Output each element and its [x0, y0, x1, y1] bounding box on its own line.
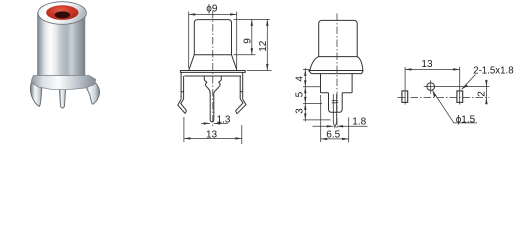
dim 9 extension lines: [234, 19, 270, 54]
dim phi9 line: [189, 13, 237, 15]
photo center hole: [55, 11, 70, 18]
svg-text:12: 12: [258, 40, 269, 52]
front right wall: [240, 72, 243, 99]
side left dim extension lines: [303, 69, 331, 120]
dim 13 extension lines: [184, 117, 242, 144]
dim 9 line: [251, 19, 253, 54]
photo left leg claw: [30, 79, 42, 107]
photo right leg claw: [83, 78, 99, 105]
centerline front view: [212, 11, 214, 126]
side pin: [333, 94, 336, 127]
dim 6.5 line: [321, 138, 349, 140]
svg-text:ϕ9: ϕ9: [206, 4, 218, 15]
svg-text:1.8: 1.8: [352, 117, 366, 128]
front left claw: [178, 99, 187, 114]
dim 6.5 extension lines: [321, 95, 349, 143]
side barrel: [319, 20, 358, 56]
front right claw: [236, 99, 246, 114]
leader 2-1.5x1.8: [462, 75, 476, 90]
svg-text:4: 4: [295, 76, 306, 82]
footprint hole circle: [427, 83, 435, 91]
front bracket top flange: [180, 71, 245, 73]
svg-text:13: 13: [421, 59, 433, 70]
photo base collar: [31, 76, 96, 90]
photo base underside shadow: [42, 87, 83, 90]
svg-text:6.5: 6.5: [326, 129, 340, 140]
svg-text:ϕ1.5: ϕ1.5: [456, 114, 476, 125]
footprint hole crosshair horizontal: [424, 86, 490, 88]
front left wall joint tick: [181, 91, 184, 93]
dim 12 extension line: [247, 70, 272, 72]
photo barrel top rim: [38, 2, 86, 25]
front bracket inner line: [184, 75, 241, 77]
side pin break ticks: [332, 101, 339, 103]
dim 12 line: [266, 19, 268, 70]
front center pin cup and pin: [204, 76, 221, 122]
svg-text:9: 9: [242, 38, 253, 44]
svg-text:13: 13: [206, 130, 218, 141]
side bell flare: [310, 57, 363, 71]
dim 1.3 arrows: [201, 122, 228, 124]
photo red insulator ring: [46, 5, 78, 20]
footprint dim 13 extension lines: [405, 67, 460, 105]
front right wall joint tick: [240, 91, 243, 93]
dim phi9 extension lines: [189, 12, 237, 69]
photo center pin: [59, 78, 66, 108]
dim 13 line: [184, 137, 242, 139]
front left wall: [181, 72, 184, 99]
footprint centerline through pads: [398, 97, 490, 99]
footprint dim 2 line: [485, 80, 487, 105]
side flange: [309, 71, 364, 74]
side left dim line 4-5-3: [304, 68, 306, 122]
svg-text:5: 5: [295, 91, 306, 97]
footprint dim 13 line: [405, 68, 460, 70]
front flare trapezoid: [189, 55, 237, 70]
svg-text:1.3: 1.3: [217, 114, 231, 125]
footprint hole crosshair vertical: [430, 80, 432, 93]
side centerline: [336, 14, 338, 129]
dim 1.8 arrows/leaders: [313, 125, 368, 127]
side block: [321, 74, 353, 93]
side U column: [329, 93, 343, 113]
leader phi1.5 with underline: [433, 91, 477, 123]
footprint right pad: [457, 91, 463, 103]
footprint left pad: [402, 91, 408, 103]
photo barrel body: [38, 13, 85, 76]
front barrel: [194, 20, 231, 55]
svg-text:2: 2: [477, 91, 488, 97]
svg-text:3: 3: [295, 108, 306, 114]
svg-text:2-1.5x1.8: 2-1.5x1.8: [473, 66, 513, 77]
